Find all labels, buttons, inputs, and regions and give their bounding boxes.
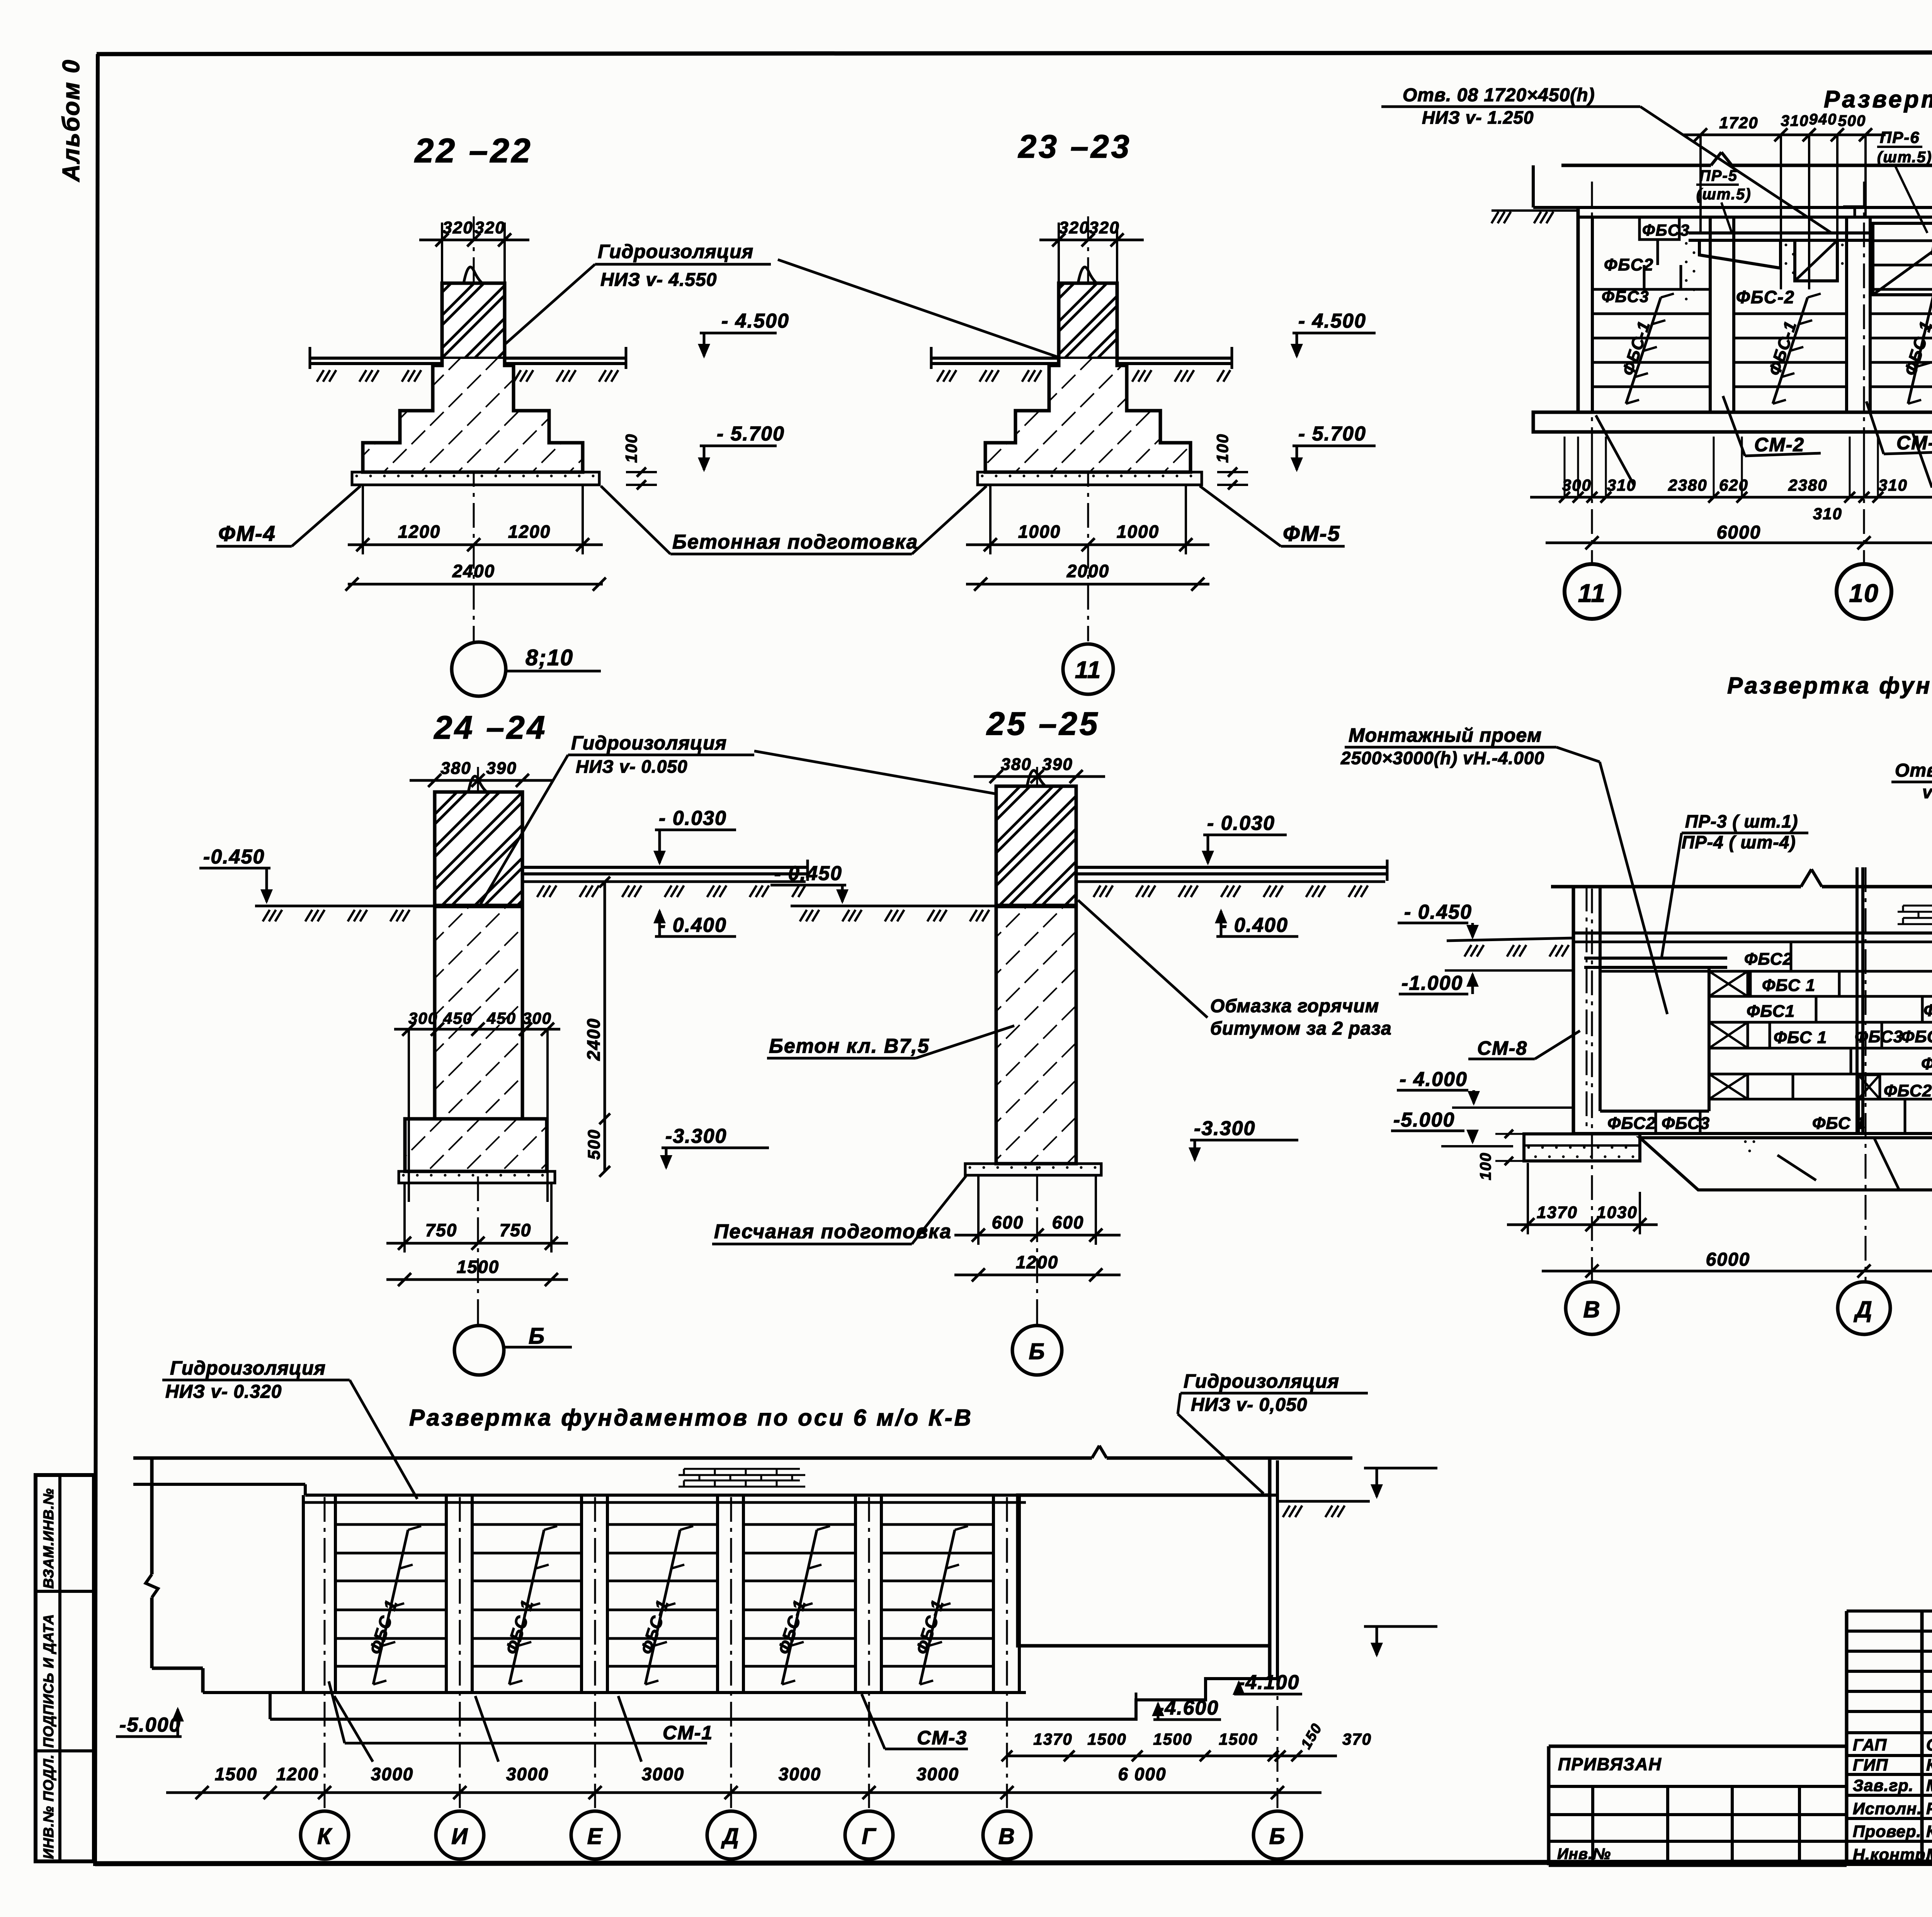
privjazan box bbox=[1547, 1746, 1551, 1865]
svg-text:- 0.400: - 0.400 bbox=[1220, 914, 1288, 936]
svg-text:320: 320 bbox=[1059, 218, 1089, 237]
svg-text:ФБС3: ФБС3 bbox=[1602, 287, 1650, 306]
svg-text:6000: 6000 bbox=[1706, 1249, 1750, 1270]
development 12 foundation slab ФЛ-1 bbox=[1640, 1138, 1932, 1190]
svg-text:2380: 2380 bbox=[1788, 476, 1827, 494]
development 6 axis circle Г bbox=[845, 1811, 893, 1859]
development K left ground hatch bbox=[1492, 212, 1498, 223]
development 12 axis circle В bbox=[1566, 1282, 1618, 1334]
development K lintel ПР-5/ПР-6 line bbox=[1689, 231, 1872, 235]
section 23-23 dim row 2000 bbox=[966, 583, 1209, 586]
development K small dim row bbox=[1530, 496, 1932, 499]
svg-text:ФМ-5: ФМ-5 bbox=[1283, 521, 1340, 546]
svg-text:В: В bbox=[1583, 1297, 1600, 1322]
section 23-23 concrete pad bbox=[978, 472, 1202, 485]
svg-text:ФМ-4: ФМ-4 bbox=[218, 521, 276, 546]
svg-text:2400: 2400 bbox=[583, 1018, 604, 1061]
left margin stamp boxes bbox=[36, 1475, 94, 1861]
development 6 top line with break bbox=[133, 1456, 1092, 1460]
section 22-22 dim row 2400 bbox=[348, 583, 603, 586]
svg-text:10: 10 bbox=[1849, 579, 1879, 607]
drawing frame top edge bbox=[97, 52, 1932, 54]
section 23-23 dim 320/320 bbox=[1039, 239, 1144, 241]
development 6 brick symbol bbox=[684, 1468, 800, 1470]
svg-text:ФБС2: ФБС2 bbox=[1604, 255, 1654, 274]
section 25-25 ground left bbox=[791, 905, 996, 908]
development 6 axis circle И bbox=[436, 1811, 484, 1859]
svg-text:- 5.700: - 5.700 bbox=[717, 423, 785, 445]
section 24-24 ground line left bbox=[255, 905, 435, 908]
svg-text:ГИП: ГИП bbox=[1853, 1756, 1888, 1774]
section 23-23 dim row 1000/1000 bbox=[966, 544, 1209, 546]
svg-text:НИЗ v- 4.550: НИЗ v- 4.550 bbox=[600, 270, 717, 290]
section 22-22 centerline bbox=[473, 216, 475, 641]
svg-text:320: 320 bbox=[474, 218, 505, 237]
section 22-22 axis circle 8;10 bbox=[452, 642, 506, 696]
svg-text:- 4.500: - 4.500 bbox=[1298, 310, 1366, 332]
development 12 Д axis post bbox=[1855, 867, 1859, 1134]
development 12 first course line bbox=[1573, 941, 1932, 943]
development 6 axis circle Б bbox=[1253, 1811, 1301, 1859]
development 12 level -4.000 bbox=[1452, 1106, 1573, 1109]
section 25-25 pier concrete bbox=[996, 906, 1076, 1164]
development 6 axis circle Д bbox=[707, 1811, 755, 1859]
section 25-25 floor slab right bbox=[1076, 866, 1387, 869]
section 25-25 ground right bbox=[1076, 880, 1385, 883]
development K leader diagonals from band bbox=[1596, 415, 1634, 486]
svg-text:-5.000: -5.000 bbox=[1393, 1109, 1455, 1131]
svg-text:3000: 3000 bbox=[779, 1764, 821, 1784]
development 12 wall top line bbox=[1573, 931, 1932, 935]
svg-text:1200: 1200 bbox=[276, 1764, 319, 1784]
development 12 dim 1370/1030 bbox=[1507, 1224, 1658, 1226]
development 6 wall В-Б box bbox=[1018, 1495, 1270, 1646]
development 12 level -1.000 bbox=[1445, 969, 1573, 972]
svg-text:940: 940 bbox=[1809, 111, 1837, 128]
svg-text:450: 450 bbox=[443, 1009, 473, 1027]
drawing frame bottom edge bbox=[95, 1861, 1932, 1864]
svg-text:СМ-2: СМ-2 bbox=[1754, 434, 1804, 455]
svg-text:ПОДПИСЬ И ДАТА: ПОДПИСЬ И ДАТА bbox=[41, 1614, 56, 1748]
svg-text:-0.450: -0.450 bbox=[203, 846, 265, 868]
svg-text:11: 11 bbox=[1075, 657, 1101, 683]
section 23-23 column top break mark bbox=[1078, 267, 1097, 283]
svg-text:1370: 1370 bbox=[1033, 1730, 1072, 1748]
drawing frame left edge bbox=[95, 54, 98, 1866]
section 24-24 dim 380/390 bbox=[410, 779, 553, 782]
svg-text:- 0.400: - 0.400 bbox=[659, 914, 727, 936]
section 23-23 floor slab lines bbox=[931, 357, 1232, 360]
svg-text:Гидроизоляция: Гидроизоляция bbox=[571, 732, 727, 754]
leader to 23-23 column base bbox=[778, 260, 1068, 360]
section 22-22 dim row 1200/1200 bbox=[348, 544, 603, 546]
svg-text:Гидроизоляция: Гидроизоляция bbox=[1184, 1370, 1339, 1392]
section 22-22 concrete pad (бетонная подготовка) bbox=[352, 472, 599, 485]
svg-text:2380: 2380 bbox=[1668, 476, 1707, 494]
svg-text:ФБС 1: ФБС 1 bbox=[1762, 976, 1815, 995]
development 6 second line with step bbox=[133, 1483, 305, 1486]
svg-text:Бетонная подготовка: Бетонная подготовка bbox=[672, 531, 918, 553]
svg-text:600: 600 bbox=[992, 1212, 1024, 1232]
development 12 brick symbol middle bbox=[1903, 905, 1932, 907]
svg-text:Гидроизоляция: Гидроизоляция bbox=[170, 1357, 326, 1379]
section 23-23 brick wall column hatched bbox=[1059, 283, 1117, 359]
svg-text:Развертка фундаментов по ос: Развертка фундаментов по оси 6 м/о К-В bbox=[409, 1405, 973, 1431]
svg-text:310: 310 bbox=[1781, 112, 1809, 129]
section 25-25 dim 380/390 bbox=[974, 775, 1105, 778]
svg-text:1500: 1500 bbox=[1087, 1730, 1126, 1748]
section 22-22 brick wall column hatched bbox=[442, 283, 505, 359]
section 24-24 wall hatched upper bbox=[435, 792, 522, 906]
section 25-25 dim 1200 bbox=[954, 1274, 1121, 1276]
svg-text:310: 310 bbox=[1813, 505, 1842, 523]
svg-text:1500: 1500 bbox=[457, 1257, 499, 1277]
svg-text:1720: 1720 bbox=[1719, 114, 1758, 132]
svg-text:Исполн.: Исполн. bbox=[1853, 1800, 1922, 1818]
development K dim row 1720/310/940/500 bbox=[1683, 134, 1886, 136]
svg-text:НИЗ v- 0.320: НИЗ v- 0.320 bbox=[165, 1382, 282, 1402]
svg-text:100: 100 bbox=[1213, 433, 1231, 463]
svg-text:Инв.№: Инв.№ bbox=[1557, 1846, 1611, 1863]
svg-text:ИНВ.№ ПОДЛ.: ИНВ.№ ПОДЛ. bbox=[41, 1754, 56, 1859]
svg-text:ФБС1: ФБС1 bbox=[1747, 1002, 1795, 1021]
svg-text:-3.300: -3.300 bbox=[665, 1125, 727, 1147]
development K axis circle 11 bbox=[1565, 564, 1619, 619]
svg-text:Обмазка горячим: Обмазка горячим bbox=[1210, 996, 1379, 1016]
svg-text:310: 310 bbox=[1607, 476, 1636, 494]
development K anchor symbol on post 10 bbox=[1843, 206, 1866, 208]
svg-text:Е: Е bbox=[587, 1824, 603, 1849]
development K pilaster posts bbox=[1709, 217, 1712, 412]
svg-text:- 4.000: - 4.000 bbox=[1400, 1068, 1468, 1091]
svg-text:500: 500 bbox=[585, 1129, 604, 1159]
svg-text:1370: 1370 bbox=[1537, 1203, 1578, 1222]
svg-text:3000: 3000 bbox=[917, 1764, 959, 1784]
svg-text:Маргулия: Маргулия bbox=[1926, 1846, 1932, 1864]
section 24-24 dim 300/450/450/300 bbox=[394, 1028, 560, 1031]
leader to 22-22 column base bbox=[505, 264, 595, 344]
svg-text:22 –22: 22 –22 bbox=[414, 131, 532, 170]
section 22-22 ground hatch bbox=[317, 370, 324, 382]
svg-text:И: И bbox=[451, 1824, 468, 1849]
svg-text:620: 620 bbox=[1719, 476, 1748, 494]
svg-text:ГАП: ГАП bbox=[1853, 1736, 1887, 1754]
svg-text:ФБС-2: ФБС-2 bbox=[1736, 287, 1795, 307]
svg-text:600: 600 bbox=[1052, 1212, 1084, 1232]
svg-text:1200: 1200 bbox=[1016, 1252, 1058, 1272]
development 12 level -5.000 bbox=[1441, 1145, 1513, 1147]
svg-text:300: 300 bbox=[1562, 476, 1592, 494]
svg-text:500: 500 bbox=[1838, 112, 1866, 129]
svg-text:ФБС3: ФБС3 bbox=[1662, 1114, 1710, 1133]
development 12 dim 6000/6000 bbox=[1542, 1270, 1932, 1273]
svg-text:-1.000: -1.000 bbox=[1401, 972, 1463, 994]
development 6 panels top line bbox=[303, 1501, 1026, 1504]
development K foundation slab band bbox=[1533, 412, 1932, 432]
svg-text:Развертка Фундаментов по ос: Развертка Фундаментов по оси К п/о 11-6 bbox=[1824, 86, 1932, 113]
section 25-25 dim 600/600 bbox=[954, 1234, 1121, 1237]
svg-text:300: 300 bbox=[522, 1009, 552, 1027]
section 23-23 stepped foundation bbox=[985, 359, 1190, 472]
development 6 В-Б bottom steps bbox=[1026, 1679, 1277, 1719]
section 24-24 wall lower concrete bbox=[435, 906, 522, 1119]
svg-text:Г: Г bbox=[862, 1824, 876, 1849]
svg-text:ФБС3: ФБС3 bbox=[1855, 1027, 1903, 1046]
development K wall top line bbox=[1578, 216, 1932, 219]
svg-text:Морозова: Морозова bbox=[1926, 1776, 1932, 1795]
svg-text:310: 310 bbox=[1878, 476, 1908, 494]
svg-text:ПР-6: ПР-6 bbox=[1880, 128, 1920, 146]
section 23-23 axis circle 11 bbox=[1063, 644, 1113, 694]
svg-text:23 –23: 23 –23 bbox=[1018, 128, 1132, 165]
development 6 main dim row bbox=[166, 1791, 1321, 1794]
svg-text:Каледина: Каледина bbox=[1926, 1822, 1932, 1841]
svg-text:ФБС 1: ФБС 1 bbox=[1812, 1114, 1866, 1133]
section 24-24 centerline bbox=[477, 767, 479, 1325]
section 24-24 ground line right bbox=[522, 880, 806, 883]
svg-text:СМ-3: СМ-3 bbox=[917, 1727, 967, 1749]
development 12 X small box bbox=[1858, 1075, 1880, 1099]
svg-text:3000: 3000 bbox=[371, 1764, 413, 1784]
section 25-25 column top break mark bbox=[1027, 770, 1046, 786]
development 12 opening bbox=[1599, 971, 1602, 1111]
svg-text:Провер.: Провер. bbox=[1853, 1822, 1922, 1841]
section 25-25 waterproofing at -0.400 bbox=[996, 904, 1076, 908]
development K axis circle 10 bbox=[1837, 564, 1891, 619]
svg-text:ПР-4 ( шт-4): ПР-4 ( шт-4) bbox=[1682, 832, 1796, 852]
svg-text:390: 390 bbox=[1042, 755, 1073, 774]
svg-text:- 4.500: - 4.500 bbox=[721, 310, 789, 332]
svg-text:(шт.5): (шт.5) bbox=[1877, 149, 1932, 166]
section 24-24 dim 750/750 bbox=[386, 1242, 568, 1245]
svg-text:В: В bbox=[998, 1824, 1015, 1849]
svg-text:8;10: 8;10 bbox=[526, 645, 573, 670]
svg-text:25 –25: 25 –25 bbox=[986, 705, 1100, 742]
svg-text:- 0.450: - 0.450 bbox=[1404, 901, 1472, 923]
svg-text:370: 370 bbox=[1342, 1730, 1372, 1748]
svg-text:ФБС3: ФБС3 bbox=[1642, 221, 1690, 239]
svg-text:24 –24: 24 –24 bbox=[434, 709, 548, 746]
section 24-24 axis circle Б bbox=[454, 1326, 504, 1375]
svg-text:ВЗАМ.ИНВ.№: ВЗАМ.ИНВ.№ bbox=[41, 1488, 56, 1589]
svg-text:ФБС2: ФБС2 bbox=[1744, 950, 1793, 969]
svg-text:Д: Д bbox=[721, 1824, 740, 1849]
development 12 block joints bbox=[1790, 942, 1793, 971]
svg-text:ПРИВЯЗАН: ПРИВЯЗАН bbox=[1558, 1754, 1662, 1774]
svg-text:11: 11 bbox=[1578, 579, 1606, 607]
svg-text:- 0.450: - 0.450 bbox=[774, 862, 842, 885]
svg-text:ФБС2: ФБС2 bbox=[1607, 1114, 1656, 1133]
development 12 course lines bbox=[1709, 970, 1932, 973]
section 22-22 floor slab lines bbox=[310, 357, 626, 360]
svg-text:100: 100 bbox=[622, 433, 640, 463]
svg-text:Д: Д bbox=[1853, 1297, 1872, 1322]
svg-text:1200: 1200 bbox=[398, 522, 440, 542]
svg-text:320: 320 bbox=[1089, 218, 1119, 237]
section 22-22 waterproofing layer bbox=[442, 364, 505, 368]
development 6 axis circle К bbox=[301, 1811, 349, 1859]
development 6 ground right of Б bbox=[1277, 1500, 1370, 1503]
development 6 right level marks bbox=[1364, 1467, 1437, 1470]
svg-text:6 000: 6 000 bbox=[1118, 1764, 1166, 1784]
development K wall bottom line bbox=[1578, 411, 1932, 414]
development 6 axis dashdot lines bbox=[324, 1497, 326, 1808]
svg-text:-4.600: -4.600 bbox=[1157, 1697, 1219, 1719]
development 12 bottom slab strip left bbox=[1524, 1134, 1640, 1161]
svg-text:ФБС2: ФБС2 bbox=[1884, 1081, 1932, 1100]
svg-text:2400: 2400 bbox=[452, 561, 495, 581]
section 24-24 floor slab right bbox=[522, 866, 808, 869]
section 25-25 sand pad bbox=[965, 1164, 1101, 1175]
section 22-22 stepped foundation bbox=[363, 359, 583, 472]
svg-text:2500×3000(h) vН.-4.000: 2500×3000(h) vН.-4.000 bbox=[1340, 748, 1544, 768]
section 24-24 column top break mark bbox=[468, 776, 487, 792]
signature table grid bbox=[1847, 1609, 1932, 1613]
svg-text:1000: 1000 bbox=[1018, 522, 1061, 542]
section 22-22 column top break mark bbox=[464, 267, 482, 283]
section 25-25 wall hatched upper bbox=[996, 786, 1076, 906]
development 6 leader diagonals bbox=[334, 1696, 373, 1762]
bottom-left cells of title area bbox=[1549, 1813, 1847, 1816]
svg-text:- 5.700: - 5.700 bbox=[1298, 423, 1366, 445]
svg-text:Гидроизоляция: Гидроизоляция bbox=[598, 241, 753, 262]
svg-text:1200: 1200 bbox=[508, 522, 551, 542]
svg-text:300: 300 bbox=[408, 1009, 438, 1027]
svg-text:1030: 1030 bbox=[1597, 1203, 1638, 1222]
development 12 X monolith boxes left bbox=[1709, 971, 1748, 996]
section 24-24 dim 1500 bbox=[386, 1278, 568, 1281]
svg-text:-4.100: -4.100 bbox=[1238, 1671, 1299, 1694]
svg-text:СМ-8: СМ-8 bbox=[1477, 1037, 1527, 1059]
section 23-23 ground hatch bbox=[937, 370, 944, 382]
svg-text:НИЗ v- 0.050: НИЗ v- 0.050 bbox=[576, 756, 687, 777]
development 6 right wall edge bbox=[1268, 1458, 1272, 1679]
svg-text:НИЗ v- 1.250: НИЗ v- 1.250 bbox=[1422, 107, 1534, 127]
svg-text:390: 390 bbox=[486, 759, 517, 778]
svg-text:ФБС 1: ФБС 1 bbox=[1774, 1028, 1827, 1047]
svg-text:380: 380 bbox=[440, 759, 471, 778]
section 24-24 waterproofing at -0.400 bbox=[435, 904, 522, 908]
development K axis dim row 6000/9000/6000 bbox=[1546, 542, 1932, 544]
svg-text:750: 750 bbox=[500, 1220, 532, 1240]
svg-text:- 0.030: - 0.030 bbox=[659, 807, 727, 829]
development K block ФБС3 top left bbox=[1639, 217, 1679, 240]
svg-text:Бетон кл. В7,5: Бетон кл. В7,5 bbox=[769, 1035, 930, 1057]
svg-text:Б: Б bbox=[529, 1324, 545, 1349]
svg-text:1500: 1500 bbox=[215, 1764, 257, 1784]
svg-text:1500: 1500 bbox=[1219, 1730, 1258, 1748]
development 12 top line with breaks bbox=[1551, 885, 1801, 889]
svg-text:Рондарева: Рондарева bbox=[1926, 1800, 1932, 1818]
section 24-24 sand pad bbox=[399, 1171, 555, 1183]
svg-text:НИЗ v- 0,050: НИЗ v- 0,050 bbox=[1191, 1395, 1308, 1415]
svg-text:ФБС2: ФБС2 bbox=[1923, 1001, 1932, 1020]
svg-text:380: 380 bbox=[1001, 755, 1031, 774]
svg-text:- 0.030: - 0.030 bbox=[1207, 812, 1275, 834]
svg-text:ФБС3: ФБС3 bbox=[1901, 1027, 1932, 1046]
development K left wall edge bbox=[1577, 207, 1580, 412]
svg-text:vН. - 0.850: vН. - 0.850 bbox=[1922, 782, 1932, 802]
development K slab bottom / ground line bbox=[1533, 206, 1932, 209]
svg-text:6000: 6000 bbox=[1717, 522, 1761, 543]
svg-text:ФБС3: ФБС3 bbox=[1921, 1054, 1932, 1073]
svg-text:Зав.гр.: Зав.гр. bbox=[1853, 1776, 1914, 1795]
svg-text:Отв. 08 1720×450(h): Отв. 08 1720×450(h) bbox=[1403, 85, 1595, 105]
svg-text:3000: 3000 bbox=[506, 1764, 549, 1784]
development K opening Отв.08 940x900 bbox=[1873, 223, 1932, 295]
development 12 opening lintel bbox=[1584, 957, 1727, 960]
development K dotted concrete patches bbox=[1785, 244, 1787, 246]
svg-text:СМ-1: СМ-1 bbox=[663, 1722, 713, 1744]
svg-text:Б: Б bbox=[1269, 1824, 1286, 1849]
development 6 left outline with break bbox=[150, 1458, 154, 1574]
svg-text:1000: 1000 bbox=[1117, 522, 1159, 542]
development 12 axis lines bbox=[1591, 889, 1593, 1282]
development K block course lines bbox=[1592, 288, 1710, 291]
section 24-24 vertical dim 2400 bbox=[604, 882, 606, 1171]
section 25-25 axis circle Б bbox=[1012, 1326, 1062, 1375]
development K lintel slab below bbox=[1699, 240, 1781, 268]
svg-text:-5.000: -5.000 bbox=[119, 1714, 181, 1736]
development 12 axis circle Д bbox=[1838, 1282, 1890, 1334]
svg-text:2000: 2000 bbox=[1066, 561, 1109, 581]
development K axis lines bbox=[1591, 182, 1593, 564]
svg-text:750: 750 bbox=[425, 1220, 457, 1240]
svg-text:(шт.5): (шт.5) bbox=[1696, 186, 1752, 203]
section 23-23 waterproofing layer bbox=[1059, 364, 1117, 368]
svg-text:К: К bbox=[317, 1824, 332, 1849]
development 12 left wall bbox=[1572, 887, 1575, 1134]
svg-text:Б: Б bbox=[1029, 1339, 1045, 1364]
development 12 left ground line bbox=[1447, 938, 1573, 941]
svg-text:3000: 3000 bbox=[642, 1764, 684, 1784]
svg-text:битумом за 2 раза: битумом за 2 раза bbox=[1210, 1018, 1392, 1039]
svg-text:ПР-5: ПР-5 bbox=[1699, 167, 1738, 184]
svg-text:320: 320 bbox=[442, 218, 473, 237]
svg-text:Монтажный проем: Монтажный проем bbox=[1349, 724, 1542, 746]
svg-text:Смирнов: Смирнов bbox=[1926, 1736, 1932, 1754]
svg-text:ПР-3 ( шт.1): ПР-3 ( шт.1) bbox=[1685, 811, 1798, 831]
development 6 foundation slab strip bbox=[203, 1691, 1026, 1694]
svg-text:Каледина: Каледина bbox=[1926, 1756, 1932, 1774]
svg-text:450: 450 bbox=[486, 1009, 516, 1027]
svg-text:1500: 1500 bbox=[1153, 1730, 1192, 1748]
svg-text:Развертка фундаментов по ос: Развертка фундаментов по оси 12 м/о В÷И bbox=[1727, 673, 1932, 698]
development 6 axis circle Е bbox=[571, 1811, 619, 1859]
development K panel hatch arrows and ФБС-1 labels bbox=[1626, 297, 1661, 404]
svg-text:Альбом 0: Альбом 0 bbox=[58, 59, 85, 182]
section 24-24 widened footing bbox=[405, 1119, 547, 1171]
section 25-25 centerline bbox=[1036, 767, 1038, 1325]
svg-text:-3.300: -3.300 bbox=[1194, 1117, 1255, 1140]
development 6 dims 1370/1500x3/150/370 bbox=[1007, 1755, 1337, 1757]
development 12 wall bottom line bbox=[1573, 1132, 1932, 1135]
development 6 panels with courses bbox=[335, 1523, 446, 1526]
development 6 posts bbox=[302, 1495, 305, 1693]
development 6 axis circle В bbox=[983, 1811, 1031, 1859]
section 23-23 centerline bbox=[1087, 216, 1089, 641]
development K top slab line with breaks bbox=[1561, 164, 1711, 167]
section 22-22 dim 320/320 bbox=[419, 239, 529, 241]
svg-text:Н.контр.: Н.контр. bbox=[1853, 1846, 1930, 1864]
development K lintel piece right bbox=[1795, 240, 1837, 281]
svg-text:100: 100 bbox=[1477, 1152, 1494, 1180]
svg-text:Отв. 6С 250×250(h): Отв. 6С 250×250(h) bbox=[1895, 760, 1932, 781]
